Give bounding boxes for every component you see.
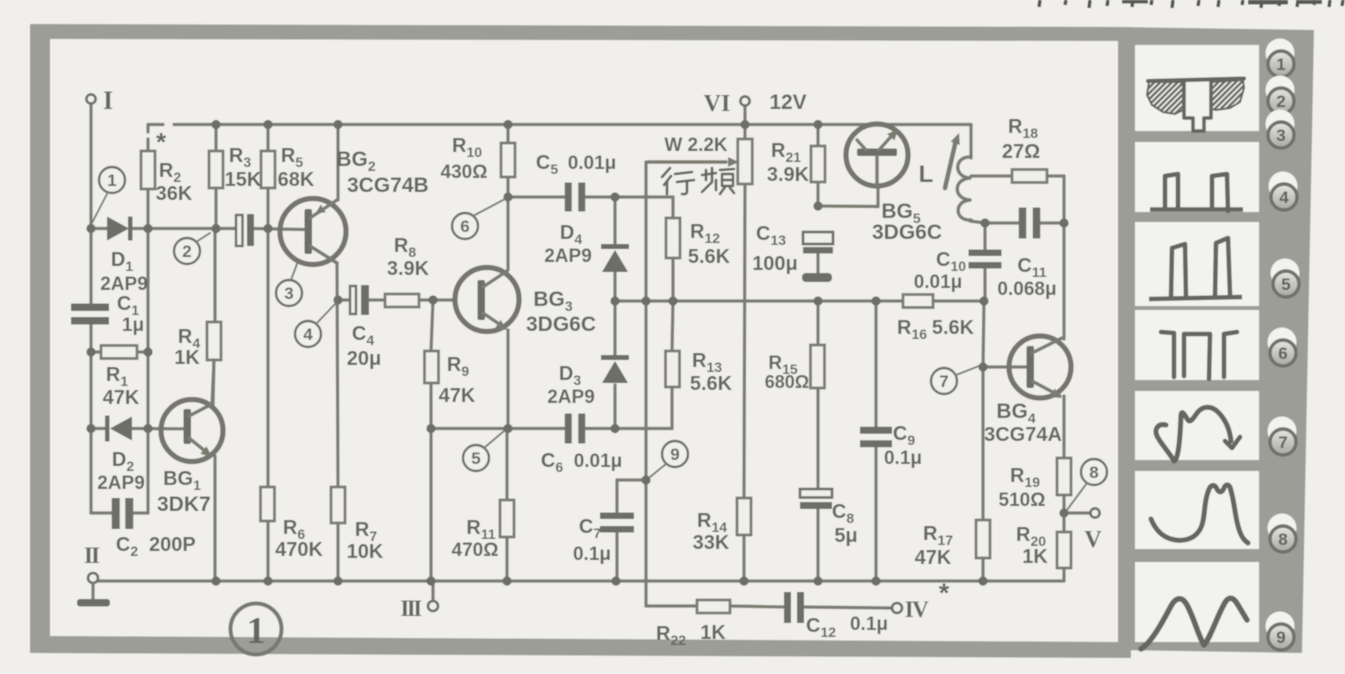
svg-text:1K: 1K bbox=[1022, 546, 1048, 568]
svg-text:3CG74A: 3CG74A bbox=[984, 424, 1062, 446]
svg-text:7: 7 bbox=[1278, 433, 1287, 452]
svg-text:V: V bbox=[1084, 527, 1102, 553]
svg-text:430Ω: 430Ω bbox=[441, 162, 488, 183]
svg-text:3: 3 bbox=[1276, 126, 1285, 145]
svg-text:10K: 10K bbox=[347, 541, 384, 563]
svg-text:4: 4 bbox=[1279, 188, 1289, 207]
svg-text:8: 8 bbox=[1089, 463, 1098, 482]
svg-text:1K: 1K bbox=[700, 622, 726, 644]
svg-text:2: 2 bbox=[1276, 92, 1285, 111]
svg-text:2AP9: 2AP9 bbox=[547, 387, 595, 408]
svg-text:5μ: 5μ bbox=[834, 525, 857, 547]
svg-text:2: 2 bbox=[182, 242, 191, 261]
svg-text:1: 1 bbox=[247, 610, 266, 652]
svg-text:2AP9: 2AP9 bbox=[97, 473, 145, 494]
svg-text:IV: IV bbox=[905, 597, 929, 622]
svg-text:1μ: 1μ bbox=[122, 315, 144, 336]
svg-text:9: 9 bbox=[1276, 628, 1285, 647]
svg-text:3: 3 bbox=[284, 284, 293, 303]
svg-text:470K: 470K bbox=[275, 539, 323, 561]
svg-text:1: 1 bbox=[1276, 55, 1285, 74]
svg-text:20μ: 20μ bbox=[347, 348, 381, 370]
svg-text:3DK7: 3DK7 bbox=[157, 493, 211, 516]
svg-text:5.6K: 5.6K bbox=[932, 317, 975, 339]
svg-text:0.01μ: 0.01μ bbox=[568, 153, 617, 174]
svg-text:47K: 47K bbox=[439, 385, 476, 407]
svg-text:0.068μ: 0.068μ bbox=[997, 279, 1056, 300]
svg-text:0.1μ: 0.1μ bbox=[850, 614, 888, 635]
svg-text:III: III bbox=[400, 596, 422, 621]
svg-text:2AP9: 2AP9 bbox=[100, 274, 148, 295]
svg-text:47K: 47K bbox=[915, 547, 952, 569]
svg-text:L: L bbox=[919, 161, 934, 188]
svg-text:3DG6C: 3DG6C bbox=[526, 313, 596, 336]
svg-text:27Ω: 27Ω bbox=[1002, 141, 1040, 163]
svg-text:100μ: 100μ bbox=[752, 253, 798, 275]
svg-text:*: * bbox=[156, 127, 167, 157]
svg-text:68K: 68K bbox=[278, 169, 315, 191]
svg-text:5.6K: 5.6K bbox=[690, 373, 733, 395]
svg-text:0.01μ: 0.01μ bbox=[914, 272, 963, 293]
svg-text:W 2.2K: W 2.2K bbox=[664, 135, 728, 156]
svg-text:36K: 36K bbox=[156, 183, 193, 205]
svg-text:VI: VI bbox=[704, 91, 731, 117]
svg-text:12V: 12V bbox=[769, 91, 806, 114]
svg-text:6: 6 bbox=[460, 217, 469, 236]
svg-text:510Ω: 510Ω bbox=[999, 490, 1046, 511]
svg-text:*: * bbox=[939, 578, 950, 608]
svg-text:4: 4 bbox=[303, 325, 313, 344]
svg-text:3.9K: 3.9K bbox=[387, 258, 430, 280]
svg-text:II: II bbox=[84, 543, 100, 568]
svg-text:1: 1 bbox=[107, 171, 116, 190]
svg-text:5: 5 bbox=[1281, 275, 1290, 294]
svg-text:15K: 15K bbox=[225, 169, 262, 191]
svg-text:2AP9: 2AP9 bbox=[544, 246, 592, 267]
svg-text:200P: 200P bbox=[149, 534, 196, 556]
svg-text:8: 8 bbox=[1278, 530, 1287, 549]
svg-text:3.9K: 3.9K bbox=[767, 164, 810, 186]
svg-text:680Ω: 680Ω bbox=[765, 372, 809, 392]
svg-text:5: 5 bbox=[471, 449, 480, 468]
svg-text:47K: 47K bbox=[103, 387, 140, 409]
svg-text:470Ω: 470Ω bbox=[452, 540, 499, 561]
svg-text:0.1μ: 0.1μ bbox=[884, 448, 922, 469]
svg-text:6: 6 bbox=[1278, 344, 1287, 363]
svg-text:I: I bbox=[103, 86, 113, 115]
svg-text:9: 9 bbox=[670, 445, 679, 464]
svg-text:1K: 1K bbox=[174, 347, 200, 369]
svg-text:33K: 33K bbox=[693, 532, 730, 554]
svg-text:3CG74B: 3CG74B bbox=[347, 174, 429, 197]
svg-text:0.01μ: 0.01μ bbox=[574, 451, 623, 472]
svg-text:0.1μ: 0.1μ bbox=[573, 544, 611, 565]
svg-text:5.6K: 5.6K bbox=[688, 246, 731, 268]
svg-text:3DG6C: 3DG6C bbox=[872, 221, 942, 244]
svg-text:7: 7 bbox=[939, 372, 948, 391]
